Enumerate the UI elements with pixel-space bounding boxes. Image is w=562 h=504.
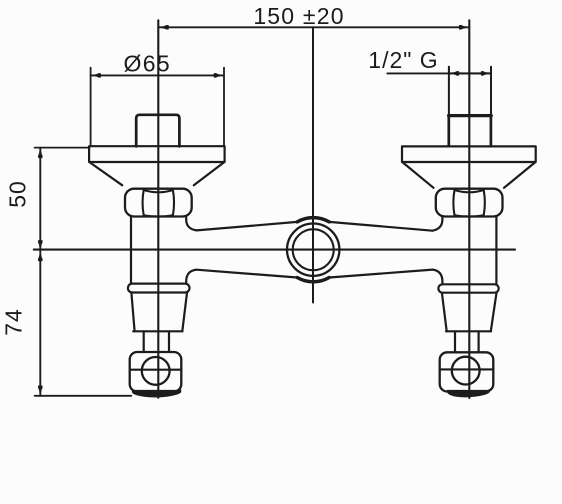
right flange plate: [402, 146, 536, 162]
extension line bottom of 74 at spout outlet: [35, 395, 132, 397]
right flange cone right side: [504, 162, 535, 187]
left flange cone right side: [194, 162, 224, 185]
body bottom right arm edge: [329, 270, 433, 278]
svg-text:150 ±20: 150 ±20: [253, 3, 344, 29]
right flange cone left side: [403, 162, 434, 187]
left hex nut: [125, 189, 192, 217]
svg-text:50: 50: [5, 180, 31, 208]
right outlet block: [440, 352, 494, 391]
left aerator shoe: [132, 388, 182, 397]
svg-text:1/2" G: 1/2" G: [368, 47, 438, 73]
left flange plate: [89, 146, 225, 162]
left collar bead: [128, 284, 190, 293]
left pipe inner edge with body fillets: [186, 217, 196, 231]
left outlet circle: [142, 357, 170, 385]
left tapered section: [131, 293, 134, 332]
right aerator shoe: [447, 388, 490, 397]
dimension line 74: [39, 251, 41, 396]
left flange cone left side: [90, 162, 123, 185]
dimension line 1/2 inch G: [387, 72, 491, 74]
extension line top of 50 at flange face: [35, 147, 90, 149]
body horizontal centerline: [34, 249, 515, 251]
right tapered section: [442, 293, 447, 331]
right pipe inner edge with body fillets: [432, 217, 442, 231]
body top left arm edge: [197, 222, 298, 231]
body bottom left arm edge: [197, 270, 298, 278]
left outlet block: [130, 352, 182, 392]
right outlet circle: [452, 357, 480, 385]
right thread relief groove: [449, 114, 492, 117]
boss outer circle: [287, 224, 339, 276]
right collar bead: [438, 284, 498, 292]
body top boss arc: [297, 218, 329, 222]
right hex nut: [436, 189, 503, 217]
boss inner circle: [293, 229, 334, 270]
left pipe outer edge: [130, 217, 132, 284]
svg-text:Ø65: Ø65: [123, 50, 171, 76]
right pipe lower section: [447, 116, 450, 146]
svg-text:74: 74: [1, 308, 27, 336]
right leg centerline: [468, 20, 470, 398]
right lower pipe: [454, 331, 456, 352]
body bottom boss arc: [297, 278, 329, 282]
body vertical centerline: [312, 27, 314, 302]
left mounting peg: [136, 115, 179, 147]
right threaded inlet pipe upper: [448, 67, 450, 115]
extension stub left of 1/2 G: [448, 67, 450, 74]
left lower pipe: [143, 331, 145, 352]
right pipe outer edge: [495, 217, 497, 284]
extension line left of O65: [90, 68, 92, 146]
body top right arm edge: [329, 222, 432, 231]
dimension line 150 plus-minus 20: [158, 26, 469, 28]
extension line right of O65: [223, 68, 225, 146]
dimension line 50: [39, 148, 41, 251]
right outlet block midline: [440, 368, 494, 370]
left outlet block midline: [130, 369, 182, 371]
dimension line diameter 65: [91, 74, 224, 76]
left leg centerline: [157, 20, 159, 398]
extension stub right of 1/2 G: [490, 67, 492, 74]
